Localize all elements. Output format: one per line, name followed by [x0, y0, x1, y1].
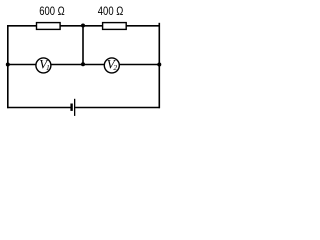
wire: center vertical tap [82, 26, 84, 65]
wire: middle rail [7, 64, 159, 66]
junction dot: top center node [81, 24, 85, 28]
wire: bottom rail left of battery [7, 107, 70, 109]
resistor R2 (400 ohm) [103, 23, 127, 30]
battery: short thick negative plate [70, 104, 72, 111]
wire: bottom rail right of battery [75, 107, 160, 109]
resistor R1 (600 ohm) [37, 23, 61, 30]
voltmeter V2 [104, 58, 119, 73]
svg-text:600 Ω: 600 Ω [39, 4, 65, 18]
junction dot: middle left node [6, 63, 10, 67]
svg-text:1: 1 [46, 63, 50, 72]
voltmeter V1 [36, 58, 51, 73]
junction dot: middle center node [81, 62, 85, 66]
wire: left rail [7, 25, 9, 108]
junction dot: middle right node [157, 63, 161, 67]
wire: right rail [158, 23, 160, 108]
svg-text:400 Ω: 400 Ω [98, 4, 124, 18]
battery: long thin positive plate [74, 99, 75, 116]
svg-text:2: 2 [113, 63, 117, 72]
wire: top rail [7, 25, 160, 27]
